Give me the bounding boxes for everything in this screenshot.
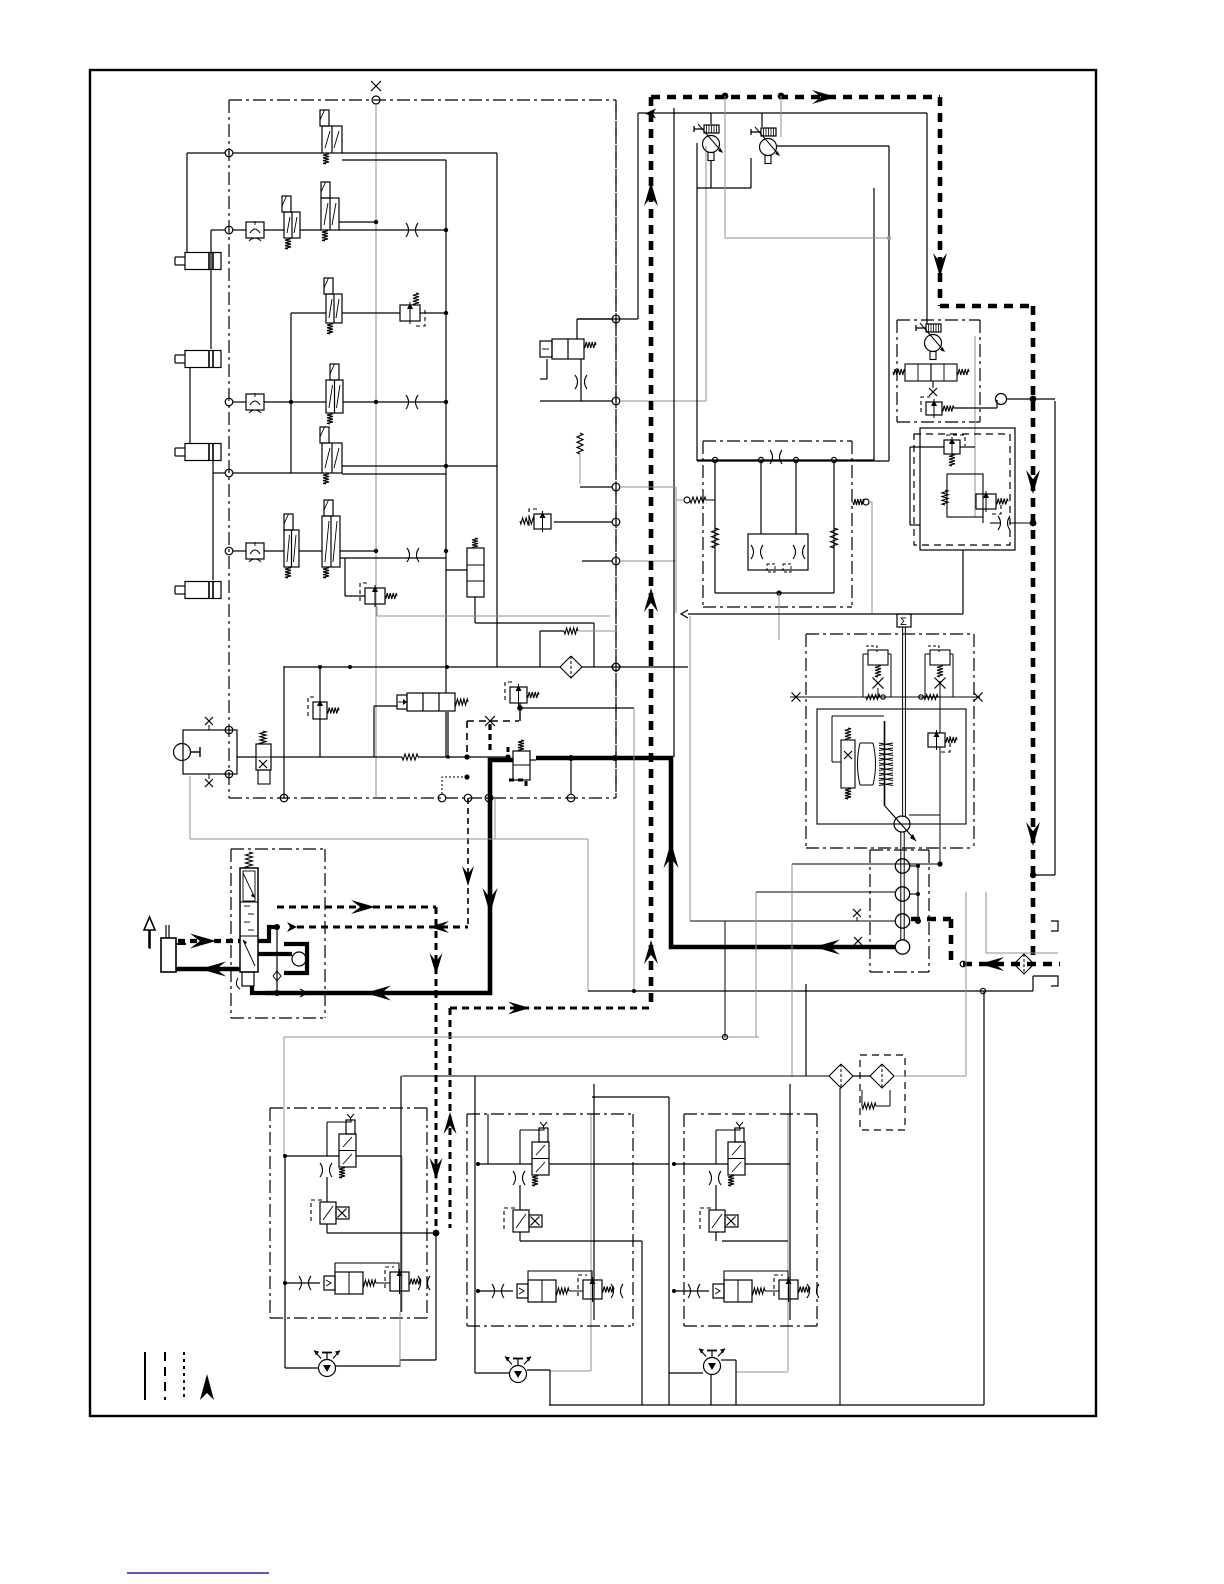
svg-text:Σ: Σ xyxy=(900,616,907,628)
